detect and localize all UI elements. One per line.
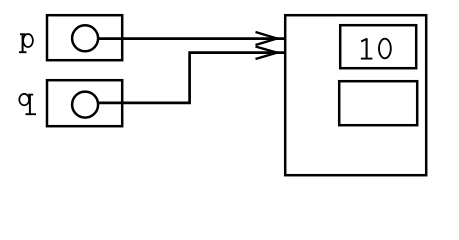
circle p (pointer blob) bbox=[72, 25, 98, 51]
field box 1 (value 10) bbox=[340, 25, 416, 68]
label p (drawn glyph: stem, serifs, bowl) bbox=[19, 34, 33, 53]
arrowhead p bbox=[256, 32, 278, 45]
box p (pointer variable p) bbox=[47, 15, 122, 60]
value label 10 (digit 1: flag, stem, foot serif) bbox=[361, 38, 373, 58]
box q (pointer variable q) bbox=[47, 80, 122, 126]
wire p (p to object) bbox=[98, 37, 285, 40]
field box 2 (empty) bbox=[339, 81, 417, 125]
big object box bbox=[285, 15, 426, 175]
circle q (pointer blob) bbox=[72, 92, 98, 118]
wire q (q to object, elbow) bbox=[98, 53, 285, 103]
label q (drawn glyph: bowl, stem, serifs) bbox=[19, 94, 36, 115]
value label 10 (digit 0: oval) bbox=[379, 39, 391, 59]
arrowhead q bbox=[256, 47, 278, 60]
